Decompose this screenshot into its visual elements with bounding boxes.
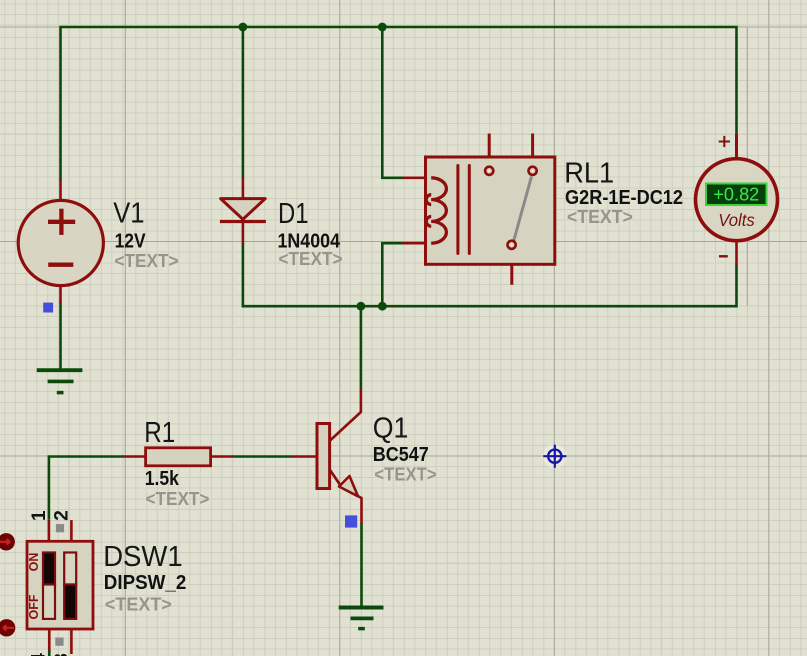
svg-text:V1: V1 — [113, 198, 144, 230]
svg-text:R1: R1 — [144, 417, 175, 449]
svg-text:DIPSW_2: DIPSW_2 — [104, 571, 187, 594]
svg-text:<TEXT>: <TEXT> — [105, 594, 172, 615]
svg-text:D1: D1 — [278, 198, 309, 230]
svg-text:RL1: RL1 — [564, 157, 614, 189]
svg-text:<TEXT>: <TEXT> — [567, 206, 633, 227]
svg-text:2: 2 — [52, 510, 73, 521]
svg-text:1.5k: 1.5k — [145, 467, 180, 490]
svg-text:OFF: OFF — [27, 594, 41, 619]
svg-text:ON: ON — [27, 553, 41, 572]
svg-text:1: 1 — [29, 510, 50, 521]
svg-text:<TEXT>: <TEXT> — [279, 248, 343, 269]
svg-text:Volts: Volts — [718, 210, 755, 230]
svg-text:<TEXT>: <TEXT> — [115, 250, 179, 271]
svg-text:<TEXT>: <TEXT> — [374, 464, 436, 485]
svg-text:12V: 12V — [115, 229, 146, 252]
svg-text:<TEXT>: <TEXT> — [146, 488, 210, 509]
svg-text:Q1: Q1 — [373, 412, 409, 444]
svg-text:+0.82: +0.82 — [713, 185, 759, 205]
svg-text:DSW1: DSW1 — [103, 541, 183, 573]
